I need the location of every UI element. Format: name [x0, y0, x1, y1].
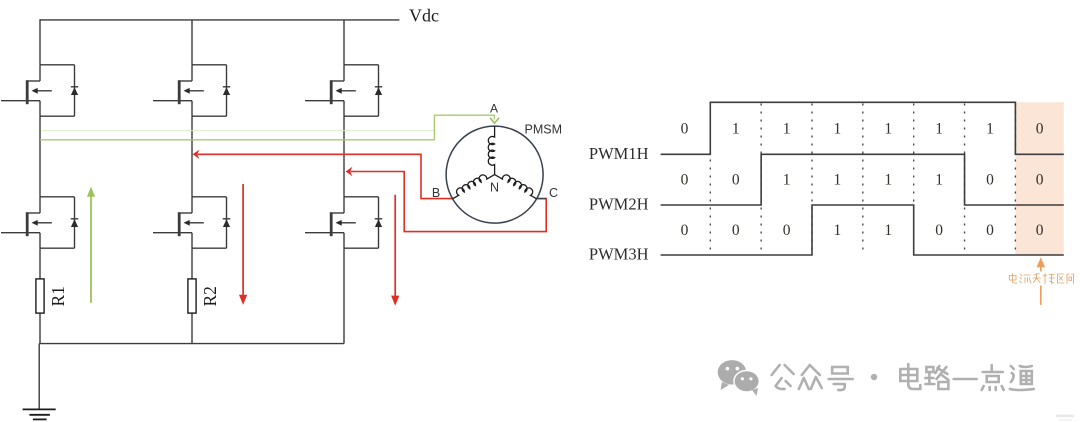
svg-text:1: 1	[935, 172, 943, 189]
motor PMSM circle	[446, 126, 543, 223]
glyph lu	[925, 366, 948, 389]
waveform PWM2H	[661, 154, 1064, 205]
waveform PWM3H	[661, 205, 1064, 255]
svg-text:0: 0	[732, 172, 740, 189]
svg-text:PWM1H: PWM1H	[589, 144, 649, 163]
transistor Q2	[153, 65, 230, 116]
svg-text:0: 0	[935, 222, 943, 239]
green arrowhead at A	[490, 118, 499, 123]
red phase C path	[351, 172, 547, 232]
svg-text:1: 1	[834, 121, 842, 138]
svg-text:0: 0	[681, 172, 689, 189]
digits row 1	[681, 121, 1044, 138]
transistor Q6	[305, 197, 382, 248]
svg-text:0: 0	[986, 172, 994, 189]
glyph dian	[900, 364, 920, 389]
glyph zhong	[799, 365, 822, 389]
wire bus right middle	[343, 116, 345, 197]
orange sampling highlight	[1015, 102, 1063, 255]
svg-text:0: 0	[1036, 222, 1044, 239]
wire bus left lower	[39, 248, 41, 279]
glyph dian2	[982, 365, 1004, 390]
svg-text:0: 0	[732, 222, 740, 239]
sampling label (Chinese, drawn)	[1010, 274, 1074, 284]
svg-text:0: 0	[986, 222, 994, 239]
svg-text:PWM2H: PWM2H	[589, 195, 649, 214]
resistor R2	[188, 279, 196, 313]
svg-text:1: 1	[884, 222, 892, 239]
bottom rail wire	[39, 343, 344, 345]
svg-text:0: 0	[681, 121, 689, 138]
watermark text (drawn glyphs)	[772, 364, 1034, 390]
svg-text:A: A	[490, 102, 498, 116]
watermark corner text	[1056, 415, 1074, 418]
wire bus left middle	[39, 116, 41, 197]
svg-text:Vdc: Vdc	[409, 6, 439, 26]
digits row 2	[681, 172, 1044, 189]
wire C stub	[537, 198, 547, 200]
svg-text:1: 1	[986, 121, 994, 138]
red current arrow mid down	[242, 184, 244, 295]
transistor Q1	[1, 65, 78, 116]
wire bus left top	[39, 19, 41, 65]
wire mid below R2	[191, 313, 193, 344]
digits row 3	[681, 222, 1044, 239]
red arrowhead at right bus	[346, 167, 353, 176]
svg-text:0: 0	[681, 222, 689, 239]
resistor R1	[36, 279, 44, 313]
red phase B path	[198, 154, 453, 198]
red current arrow right down	[394, 195, 396, 296]
transistor Q4	[1, 197, 78, 248]
wire bus mid top	[191, 20, 193, 65]
watermark wechat icon	[718, 360, 760, 396]
svg-text:1: 1	[732, 121, 740, 138]
svg-text:1: 1	[884, 121, 892, 138]
wire bus mid middle	[191, 116, 193, 197]
wire green ghost line	[42, 130, 434, 132]
svg-text:R2: R2	[200, 286, 220, 306]
glyph gong	[772, 365, 794, 389]
ground stem	[38, 344, 40, 410]
svg-text:1: 1	[834, 222, 842, 239]
wire green phase A path	[40, 115, 494, 140]
red arrowhead at mid bus	[193, 150, 200, 159]
svg-text:PWM3H: PWM3H	[589, 245, 649, 264]
wire bus right top	[343, 20, 345, 65]
svg-text:1: 1	[783, 121, 791, 138]
svg-text:R1: R1	[48, 286, 68, 306]
wire bus mid lower	[191, 248, 193, 279]
svg-text:C: C	[549, 186, 558, 200]
glyph tong	[1010, 366, 1034, 390]
svg-text:0: 0	[1036, 172, 1044, 189]
PWM dotted grid lines	[710, 104, 1015, 255]
sampling arrow up	[1040, 267, 1042, 305]
wire bus right lower	[343, 248, 345, 343]
wire left below R1	[39, 313, 41, 344]
green current arrow up	[90, 196, 92, 302]
Vdc rail wire	[40, 19, 399, 21]
transistor Q5	[153, 197, 230, 248]
winding A	[488, 126, 494, 175]
glyph dot	[871, 374, 877, 380]
transistor Q3	[305, 65, 382, 116]
glyph yi	[954, 378, 977, 381]
svg-text:N: N	[490, 181, 499, 195]
svg-text:0: 0	[783, 222, 791, 239]
winding B	[453, 175, 495, 199]
svg-text:1: 1	[884, 172, 892, 189]
svg-text:1: 1	[783, 172, 791, 189]
svg-text:0: 0	[1036, 121, 1044, 138]
winding C	[495, 175, 537, 199]
svg-text:1: 1	[834, 172, 842, 189]
ground	[23, 409, 56, 419]
svg-text:1: 1	[935, 121, 943, 138]
svg-text:PMSM: PMSM	[525, 123, 563, 137]
glyph hao	[829, 367, 853, 390]
waveform PWM1H	[661, 102, 1064, 154]
svg-text:B: B	[432, 186, 440, 200]
